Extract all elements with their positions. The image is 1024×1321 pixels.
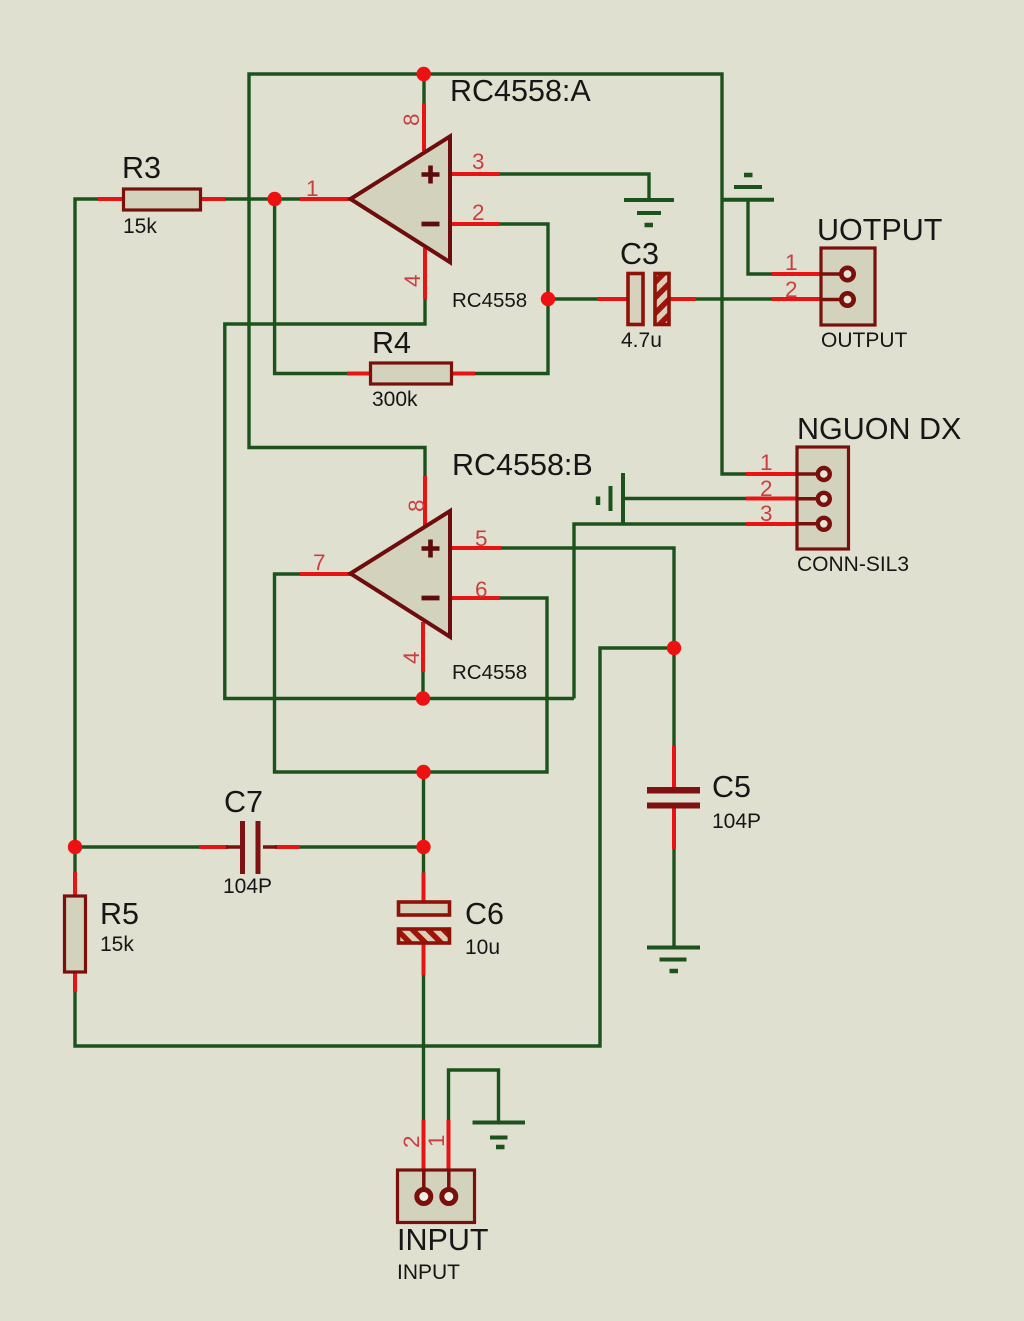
junction node C: pin5/C5: [667, 641, 681, 655]
junction node D: pin6/7 net: [416, 765, 430, 779]
svg-text:C3: C3: [620, 237, 659, 271]
svg-text:4: 4: [400, 274, 425, 287]
pin C7 left red lead: [199, 845, 228, 849]
wire op-amp B pin 5 to node C, C5 top, branch left: [501, 548, 674, 746]
svg-text:2: 2: [785, 277, 798, 302]
ground rotated left (NGUON pin 2): [598, 473, 623, 524]
junction node left rail / C7: [68, 840, 82, 854]
pin INPUT 2 red lead: [422, 1120, 426, 1171]
op-amp U1:B RC4558:B: [351, 448, 593, 684]
wire INPUT pin 1 to ground stub: [449, 1070, 499, 1121]
svg-text:CONN-SIL3: CONN-SIL3: [797, 553, 909, 576]
lead C7 right dark segment: [263, 845, 277, 849]
capacitor C7: [223, 785, 272, 898]
op-amp U1:A RC4558:A: [351, 74, 592, 312]
svg-text:UOTPUT: UOTPUT: [817, 213, 942, 247]
svg-text:2: 2: [399, 1135, 424, 1148]
pin R4 left red lead: [347, 372, 371, 376]
pin C6 top red lead: [422, 873, 426, 903]
pin 2 op-amp A red lead: [450, 222, 500, 226]
wire node C left and down to bottom rail to R5 bottom: [75, 648, 674, 1046]
wire left ground to NGUON pin 2: [623, 497, 746, 500]
wire C7 left to left rail node: [75, 845, 199, 848]
junction node top rail / pin8-A: [417, 67, 431, 81]
junction node B: pin2/C3/R4: [541, 292, 555, 306]
wire op-amp B pin 4 green stub: [421, 671, 424, 699]
junction node A: R3 output: [267, 192, 281, 206]
pin R5 top red lead: [73, 872, 77, 896]
svg-text:R3: R3: [122, 151, 161, 185]
pin 7 op-amp B red lead: [300, 572, 352, 576]
pin NGUON 1 red lead: [746, 472, 798, 476]
svg-text:1: 1: [306, 176, 319, 201]
pin C5 bottom red lead: [672, 808, 676, 849]
pin 4 op-amp B red lead: [421, 622, 425, 672]
pin R5 bottom red lead: [73, 971, 77, 992]
svg-text:INPUT: INPUT: [397, 1261, 460, 1284]
svg-text:104P: 104P: [712, 810, 761, 833]
svg-text:C5: C5: [712, 770, 751, 804]
svg-text:INPUT: INPUT: [397, 1223, 489, 1257]
ground (op-amp A pin 3 net): [624, 200, 674, 225]
pin R4 right red lead: [451, 372, 475, 376]
svg-text:5: 5: [475, 526, 488, 551]
pin R3 left red lead: [98, 197, 125, 201]
svg-text:6: 6: [475, 577, 488, 602]
svg-text:RC4558: RC4558: [452, 661, 527, 684]
pin NGUON 2 red lead: [746, 497, 798, 501]
svg-text:15k: 15k: [100, 933, 134, 956]
wire V+ net: top rail from NGUON pin1 up, across top, down left column to op-amp B pin 8: [249, 74, 746, 476]
svg-text:2: 2: [472, 200, 485, 225]
svg-text:R5: R5: [100, 897, 139, 931]
svg-text:3: 3: [760, 501, 773, 526]
resistor R3: [122, 151, 201, 238]
svg-text:8: 8: [399, 113, 424, 126]
svg-text:4: 4: [399, 651, 424, 664]
pin C6 bottom red lead: [422, 943, 426, 975]
capacitor C6: [399, 897, 505, 959]
svg-text:104P: 104P: [223, 875, 272, 898]
wire R3 output to node A: [225, 197, 300, 200]
capacitor C3: [620, 237, 669, 352]
pin 5 op-amp B red lead: [450, 546, 501, 550]
svg-text:NGUON DX: NGUON DX: [797, 412, 961, 446]
pin UOTPUT 1 red lead: [772, 272, 823, 276]
pin 1 op-amp A red lead: [300, 197, 352, 201]
pin NGUON 3 red lead: [746, 522, 798, 526]
svg-text:1: 1: [424, 1134, 449, 1147]
svg-text:8: 8: [404, 499, 429, 512]
wire C7 right to node E: [300, 845, 424, 848]
wire left rail: R3 left pin down to R5 top: [75, 199, 98, 872]
connector UOTPUT CONN-H2: [817, 213, 942, 352]
pin 6 op-amp B red lead: [450, 596, 500, 600]
svg-text:300k: 300k: [372, 388, 418, 411]
resistor R5: [65, 896, 140, 972]
ground inverted (UOTPUT pin 1): [722, 175, 774, 200]
wire op-amp B pin 7 down to pin6 net rail: [275, 574, 548, 772]
svg-text:15k: 15k: [123, 215, 157, 238]
connector NGUON DX CONN-SIL3: [796, 412, 961, 576]
pin INPUT 1 red lead: [447, 1120, 451, 1171]
wire node B to C3 left: [548, 297, 597, 300]
pin 4 op-amp A red lead: [423, 248, 427, 299]
wire NGUON pin 3 down to pin-4 net: [574, 524, 746, 699]
svg-text:2: 2: [760, 476, 773, 501]
pin 8 op-amp B red lead: [423, 476, 427, 527]
pin C3 left red lead: [597, 297, 628, 301]
lead C7 left dark segment: [226, 845, 240, 849]
wire node D down to node E: [422, 772, 425, 847]
pin 3 op-amp A red lead: [450, 172, 500, 176]
svg-text:7: 7: [313, 550, 326, 575]
wire op-amp A pin 4 down, across, to pin-4 net horizontal: [225, 298, 574, 699]
ground (INPUT pin 1): [473, 1123, 526, 1148]
svg-text:1: 1: [785, 250, 798, 275]
pin UOTPUT 2 red lead: [772, 297, 823, 301]
pin C3 right red lead: [668, 297, 696, 301]
wire C6 bottom to INPUT pin 2: [422, 975, 425, 1120]
resistor R4: [371, 326, 452, 411]
wire node A down to R4 left pin: [275, 199, 347, 374]
pin 8 op-amp A red lead: [422, 103, 426, 151]
svg-text:RC4558:A: RC4558:A: [450, 74, 591, 108]
svg-text:4.7u: 4.7u: [621, 329, 662, 352]
pin R3 right red lead: [200, 197, 225, 201]
wire R4 right pin up to op-amp A pin 2: [475, 224, 548, 374]
junction node pin4-B on pin-4 net: [416, 691, 430, 705]
wire node E to C6 top: [422, 847, 425, 873]
svg-text:1: 1: [760, 450, 773, 475]
svg-text:R4: R4: [372, 326, 411, 360]
wire inverted ground to UOTPUT pin 1: [748, 200, 772, 274]
wire C5 bottom to ground: [672, 849, 675, 946]
capacitor C5: [647, 770, 761, 833]
svg-text:RC4558: RC4558: [452, 289, 527, 312]
junction node E: C7 right / C6 top: [416, 840, 430, 854]
svg-text:C7: C7: [224, 785, 263, 819]
wire op-amp A pin 3 to ground stub: [500, 174, 649, 199]
wire C3 right to UOTPUT pin 2: [696, 297, 772, 300]
pin C5 top red lead: [672, 746, 676, 787]
svg-text:3: 3: [472, 149, 485, 174]
svg-text:RC4558:B: RC4558:B: [452, 448, 593, 482]
wire pin8-A drop from top rail: [422, 73, 425, 105]
svg-text:10u: 10u: [465, 936, 500, 959]
svg-text:C6: C6: [465, 897, 504, 931]
pin C7 right red lead: [275, 845, 300, 849]
svg-text:OUTPUT: OUTPUT: [821, 329, 908, 352]
connector INPUT: [397, 1169, 489, 1284]
ground (C5 bottom): [647, 948, 700, 972]
